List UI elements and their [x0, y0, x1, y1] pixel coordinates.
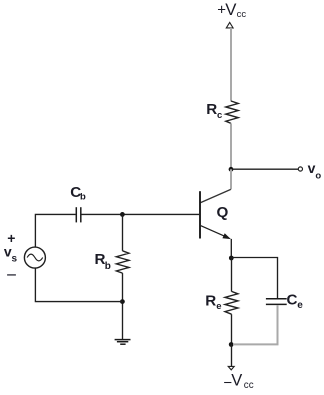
wire base node to Rb: [122, 214, 124, 251]
svg-text:o: o: [315, 170, 321, 181]
source vs circle: [24, 247, 45, 268]
node bottom: [229, 342, 234, 347]
label Rb: [95, 251, 111, 272]
svg-text:V: V: [225, 0, 237, 19]
Vcc arrow (open triangle up): [226, 22, 233, 28]
wire emitter node to Re: [231, 258, 233, 292]
label vs: [4, 244, 18, 265]
svg-text:b: b: [105, 261, 111, 272]
wire vs bottom to node: [35, 268, 122, 301]
label Ce: [287, 292, 304, 311]
capacitor Ce top plate: [266, 298, 287, 300]
wire Ce to bottom node (gray): [233, 305, 278, 344]
transistor Q base bar: [199, 191, 201, 238]
svg-text:s: s: [12, 254, 18, 265]
wire emitter node to Ce (top): [231, 258, 277, 299]
node collector: [229, 167, 234, 172]
svg-text:V: V: [231, 372, 242, 390]
wire Rc to collector node (gray): [230, 123, 232, 169]
svg-text:cc: cc: [244, 380, 254, 391]
svg-text:R: R: [206, 101, 217, 118]
source vs sine wave: [27, 254, 43, 261]
label -Vcc: [223, 372, 253, 392]
svg-text:e: e: [297, 300, 303, 311]
capacitor Cb right plate: [80, 207, 82, 222]
resistor Rc: [226, 101, 238, 123]
wire Cb to base node: [81, 213, 122, 215]
label minus: [7, 274, 16, 276]
capacitor Ce bottom plate: [266, 303, 287, 305]
svg-text:b: b: [80, 191, 86, 202]
resistor Re: [225, 291, 238, 314]
Vee arrow (open triangle down): [228, 366, 234, 370]
wire vs top to Cb: [35, 214, 75, 247]
resistor Rb: [116, 251, 128, 273]
label plus: [7, 230, 15, 246]
wire Vcc to Rc (gray): [230, 28, 232, 101]
svg-text:c: c: [217, 110, 222, 121]
wire bottom node to Vee arrow: [231, 344, 233, 366]
node bottom-left: [120, 299, 125, 304]
label Rc: [206, 101, 222, 121]
svg-text:v: v: [308, 160, 316, 176]
wire collector stub (gray): [230, 169, 232, 189]
capacitor Cb left plate: [75, 207, 77, 222]
label Cb: [70, 184, 86, 203]
svg-text:e: e: [216, 301, 221, 312]
wire node to vo terminal: [231, 168, 298, 170]
label Re: [205, 293, 221, 312]
label +Vcc: [217, 0, 246, 20]
svg-text:C: C: [287, 292, 298, 309]
wire Rb to ground node: [122, 273, 124, 340]
transistor Q emitter arrowhead: [222, 233, 231, 239]
node base: [120, 212, 125, 217]
wire Re to bottom node: [231, 314, 233, 344]
wire emitter to emitter node: [230, 239, 232, 258]
svg-text:R: R: [205, 293, 216, 310]
terminal vo (open circle): [298, 167, 302, 171]
svg-text:Q: Q: [217, 204, 229, 221]
transistor Q emitter line: [201, 226, 226, 237]
label vo: [308, 160, 322, 182]
svg-text:cc: cc: [237, 9, 247, 20]
ground: [115, 340, 131, 345]
wire base: [123, 213, 200, 215]
node emitter: [229, 256, 234, 261]
label Q: [217, 204, 229, 221]
wire collector diagonal: [201, 189, 231, 202]
